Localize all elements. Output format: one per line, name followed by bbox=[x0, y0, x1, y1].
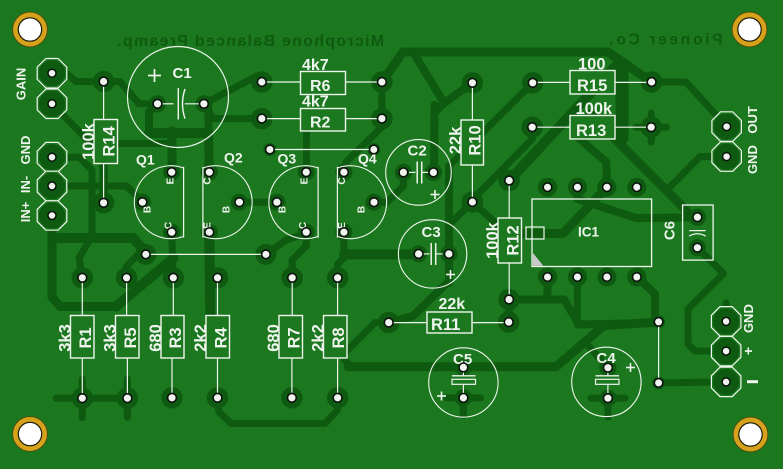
svg-text:4k7: 4k7 bbox=[302, 94, 329, 111]
svg-text:R12: R12 bbox=[504, 225, 522, 255]
svg-text:R6: R6 bbox=[310, 78, 331, 95]
svg-text:GND: GND bbox=[18, 136, 33, 165]
svg-text:22k: 22k bbox=[439, 296, 466, 313]
svg-text:C: C bbox=[203, 177, 214, 184]
svg-text:Microphone Balanced Preamp.: Microphone Balanced Preamp. bbox=[116, 33, 384, 50]
svg-text:GND: GND bbox=[741, 304, 756, 333]
svg-text:Pioneer Co.: Pioneer Co. bbox=[607, 31, 723, 48]
svg-text:100k: 100k bbox=[576, 100, 614, 118]
svg-text:B: B bbox=[278, 206, 289, 213]
svg-text:R11: R11 bbox=[431, 316, 460, 334]
svg-text:C: C bbox=[337, 177, 348, 184]
svg-text:3k3: 3k3 bbox=[57, 324, 75, 352]
svg-text:2k2: 2k2 bbox=[310, 324, 328, 352]
svg-text:E: E bbox=[300, 177, 311, 184]
svg-text:R4: R4 bbox=[212, 327, 230, 349]
svg-text:+: + bbox=[740, 347, 756, 355]
svg-text:100k: 100k bbox=[484, 221, 502, 259]
svg-text:Q2: Q2 bbox=[224, 150, 243, 166]
svg-text:IC1: IC1 bbox=[578, 225, 600, 240]
svg-text:3k3: 3k3 bbox=[102, 324, 120, 352]
svg-text:R1: R1 bbox=[77, 327, 95, 348]
svg-text:C3: C3 bbox=[422, 224, 441, 241]
svg-text:680: 680 bbox=[147, 324, 165, 352]
svg-text:R7: R7 bbox=[285, 327, 303, 348]
svg-text:2k2: 2k2 bbox=[192, 324, 210, 352]
svg-text:100: 100 bbox=[578, 55, 606, 73]
svg-text:22k: 22k bbox=[447, 126, 465, 154]
svg-text:4k7: 4k7 bbox=[302, 57, 329, 74]
svg-text:IN+: IN+ bbox=[18, 201, 33, 222]
svg-text:C6: C6 bbox=[662, 221, 679, 240]
svg-text:R14: R14 bbox=[100, 126, 118, 157]
svg-text:R5: R5 bbox=[122, 327, 140, 348]
svg-text:GND: GND bbox=[745, 145, 760, 174]
svg-text:C1: C1 bbox=[173, 65, 192, 82]
svg-text:OUT: OUT bbox=[745, 106, 760, 133]
svg-text:100k: 100k bbox=[80, 122, 98, 160]
svg-text:C2: C2 bbox=[408, 143, 427, 160]
svg-text:R3: R3 bbox=[167, 327, 185, 348]
svg-text:Q1: Q1 bbox=[136, 151, 155, 167]
svg-text:Q3: Q3 bbox=[278, 151, 297, 167]
svg-text:R8: R8 bbox=[330, 327, 348, 348]
svg-text:680: 680 bbox=[265, 324, 283, 352]
svg-text:E: E bbox=[166, 177, 177, 184]
svg-text:R15: R15 bbox=[577, 77, 607, 95]
svg-text:R13: R13 bbox=[576, 122, 606, 140]
svg-text:B: B bbox=[357, 206, 368, 213]
svg-text:R2: R2 bbox=[310, 115, 331, 132]
svg-text:GAIN: GAIN bbox=[14, 68, 29, 101]
svg-text:R10: R10 bbox=[466, 125, 484, 155]
svg-text:IN-: IN- bbox=[18, 176, 33, 193]
svg-text:B: B bbox=[222, 206, 233, 213]
